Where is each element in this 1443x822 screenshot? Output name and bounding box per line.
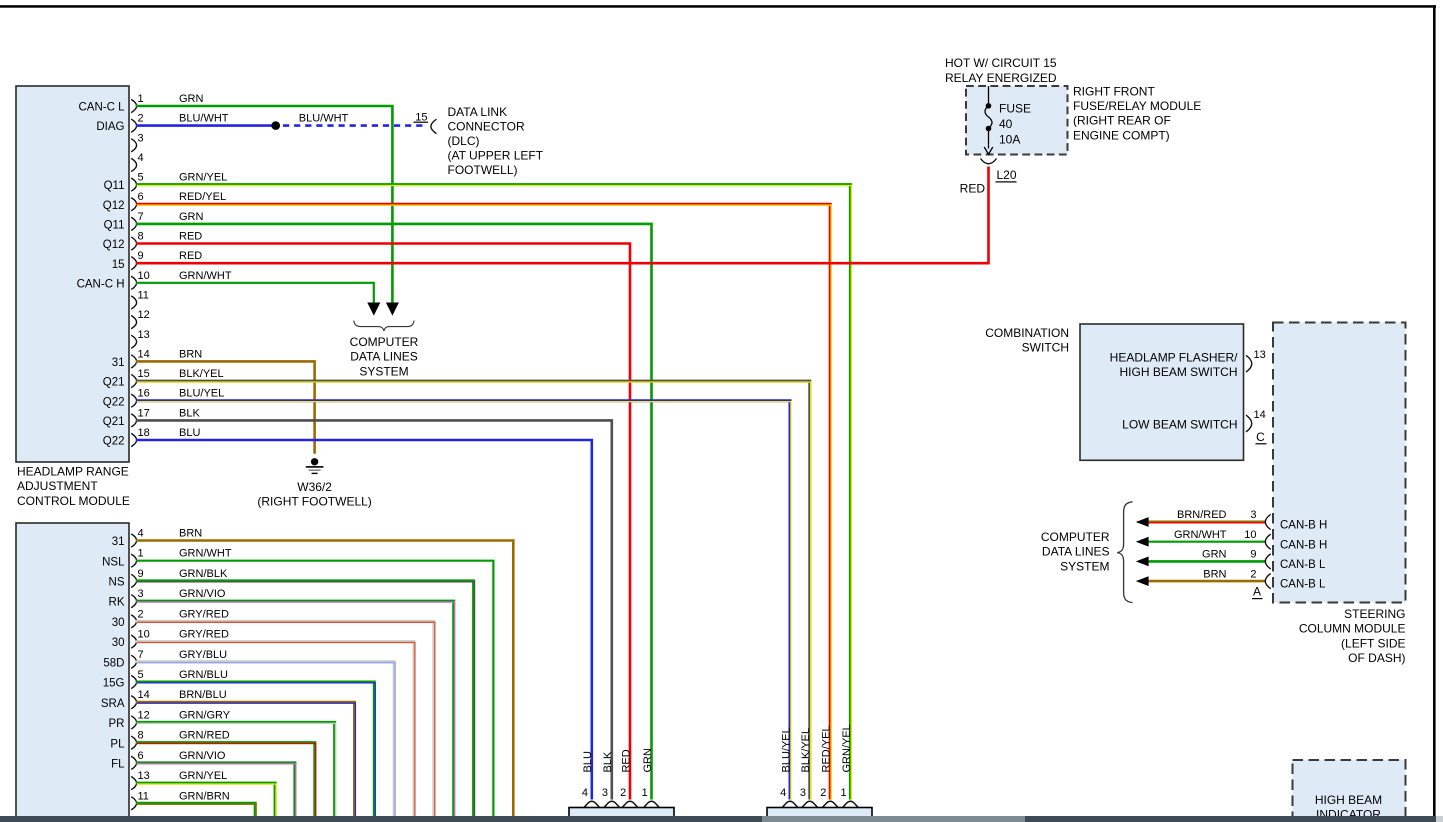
- svg-text:(RIGHT REAR OF: (RIGHT REAR OF: [1073, 114, 1171, 128]
- svg-text:13: 13: [1254, 349, 1266, 361]
- arrow into computer data lines (from U1 pin1): [386, 303, 399, 316]
- svg-text:PR: PR: [109, 718, 125, 730]
- svg-text:GRN/YEL: GRN/YEL: [841, 724, 853, 772]
- wire U2 pin6 GRN/VIO: [136, 763, 296, 817]
- svg-text:A: A: [1253, 585, 1261, 599]
- svg-text:BLK: BLK: [179, 407, 200, 419]
- svg-text:17: 17: [138, 407, 150, 419]
- scrollbar thumb: [762, 816, 1025, 822]
- svg-text:SWITCH: SWITCH: [1022, 341, 1069, 355]
- svg-text:BLU: BLU: [179, 427, 200, 439]
- svg-text:BRN: BRN: [1203, 568, 1226, 580]
- svg-text:15: 15: [138, 368, 150, 380]
- U3 internal CAN-B names: [1280, 520, 1327, 591]
- svg-text:HEADLAMP FLASHER/: HEADLAMP FLASHER/: [1110, 351, 1238, 365]
- svg-text:DIAG: DIAG: [96, 121, 124, 133]
- svg-text:OF DASH): OF DASH): [1348, 651, 1405, 665]
- wire U1 pin8 RED: [136, 244, 630, 800]
- wire U2 pin10 GRY/RED: [136, 642, 415, 817]
- svg-text:3: 3: [800, 787, 806, 799]
- svg-text:10: 10: [138, 629, 150, 641]
- svg-text:GRN/WHT: GRN/WHT: [179, 270, 232, 282]
- wire U2 pin2 GRY/RED: [136, 621, 435, 817]
- svg-text:40: 40: [999, 117, 1013, 131]
- svg-text:NS: NS: [109, 577, 125, 589]
- svg-text:RK: RK: [109, 597, 125, 609]
- svg-text:30: 30: [112, 617, 125, 629]
- module U1 internal pin names: [77, 102, 126, 448]
- wire U1 pin17 BLK: [136, 420, 612, 799]
- connector X1 (left lamp) pin cups: [584, 801, 659, 807]
- svg-text:BRN/RED: BRN/RED: [1177, 509, 1227, 521]
- svg-text:31: 31: [112, 536, 125, 548]
- wire U3 pin9 GRN: [1149, 560, 1266, 563]
- svg-text:GRN/BLK: GRN/BLK: [179, 568, 228, 580]
- svg-text:FUSE: FUSE: [999, 102, 1031, 116]
- svg-text:Q11: Q11: [104, 180, 125, 192]
- svg-text:10A: 10A: [999, 133, 1020, 147]
- module U1 pin numbers 1-18: [138, 93, 150, 439]
- svg-text:2: 2: [138, 608, 144, 620]
- svg-text:1: 1: [642, 787, 648, 799]
- svg-text:RED/YEL: RED/YEL: [179, 191, 226, 203]
- svg-text:COMPUTER: COMPUTER: [350, 335, 419, 349]
- svg-text:3: 3: [1250, 509, 1256, 521]
- svg-text:HOT W/ CIRCUIT 15: HOT W/ CIRCUIT 15: [945, 56, 1057, 70]
- svg-text:1: 1: [840, 787, 846, 799]
- svg-text:Q12: Q12: [103, 200, 125, 212]
- svg-text:GRN/WHT: GRN/WHT: [179, 548, 232, 560]
- arrow to computer data lines row 4: [1136, 576, 1149, 586]
- arrow to computer data lines row 1: [1136, 517, 1149, 527]
- svg-text:BRN: BRN: [179, 348, 202, 360]
- svg-text:GRN/BRN: GRN/BRN: [179, 790, 230, 802]
- U4 caption HIGH BEAM INDICATOR: [1315, 793, 1382, 822]
- svg-text:7: 7: [138, 649, 144, 661]
- connector X2 (right lamp) box: [767, 808, 872, 818]
- svg-text:14: 14: [138, 348, 150, 360]
- svg-text:CONNECTOR: CONNECTOR: [448, 120, 525, 134]
- ground W36/2 caption: [257, 480, 371, 509]
- svg-text:12: 12: [138, 709, 150, 721]
- svg-text:LOW BEAM SWITCH: LOW BEAM SWITCH: [1122, 418, 1237, 432]
- svg-text:BLU/YEL: BLU/YEL: [780, 727, 792, 772]
- connector X2 (right lamp) rotated wire labels: [780, 724, 852, 772]
- svg-text:RED: RED: [960, 182, 986, 196]
- svg-text:GRN/VIO: GRN/VIO: [179, 750, 226, 762]
- module U2 pin numbers: [138, 528, 150, 803]
- wire U3 pin3 BRN/RED: [1149, 521, 1266, 525]
- svg-text:W36/2: W36/2: [297, 480, 332, 494]
- svg-text:BLK/YEL: BLK/YEL: [800, 728, 812, 773]
- svg-text:4: 4: [582, 787, 588, 799]
- module U3 pin arcs: [1265, 514, 1270, 588]
- DATA LINK CONNECTOR (DLC) caption: [448, 105, 544, 177]
- U3 wire color labels: [1174, 509, 1227, 580]
- svg-text:C: C: [1256, 430, 1265, 444]
- wire U3 pin10 GRN/WHT: [1149, 541, 1266, 543]
- svg-text:GRN: GRN: [179, 211, 204, 223]
- wire U2 pin3 GRN/VIO: [136, 601, 455, 817]
- svg-text:CAN-C H: CAN-C H: [77, 278, 125, 290]
- svg-text:HIGH BEAM SWITCH: HIGH BEAM SWITCH: [1119, 365, 1237, 379]
- svg-text:Q12: Q12: [103, 239, 125, 251]
- node L20 label (underlined): [996, 168, 1017, 183]
- svg-text:14: 14: [1254, 409, 1266, 421]
- caption HOT W/ CIRCUIT 15 RELAY ENERGIZED: [945, 56, 1057, 85]
- svg-text:7: 7: [138, 211, 144, 223]
- connector X1 (left lamp) rotated wire labels: [582, 748, 654, 773]
- svg-text:4: 4: [138, 528, 144, 540]
- svg-text:Q11: Q11: [104, 219, 125, 231]
- svg-text:L20: L20: [997, 168, 1017, 182]
- svg-text:HEADLAMP RANGE: HEADLAMP RANGE: [17, 465, 129, 479]
- svg-text:2: 2: [138, 113, 144, 125]
- svg-text:GRY/RED: GRY/RED: [179, 629, 229, 641]
- wire U1 pin6 RED/YEL: [136, 204, 831, 800]
- svg-text:15: 15: [112, 259, 125, 271]
- splice node on BLU/WHT wire: [271, 121, 280, 130]
- svg-text:6: 6: [138, 750, 144, 762]
- svg-text:1: 1: [138, 93, 144, 105]
- svg-text:(AT UPPER LEFT: (AT UPPER LEFT: [448, 149, 544, 163]
- svg-text:8: 8: [138, 231, 144, 243]
- caption COMPUTER DATA LINES SYSTEM (center): [350, 335, 419, 378]
- wire U2 pin8 GRN/RED: [136, 743, 316, 817]
- svg-text:Q21: Q21: [103, 377, 125, 389]
- svg-text:GRN: GRN: [642, 748, 654, 773]
- svg-text:COLUMN MODULE: COLUMN MODULE: [1299, 622, 1406, 636]
- svg-text:RED: RED: [620, 749, 632, 772]
- fuse F40 10A element: [984, 86, 993, 154]
- svg-text:CAN-B H: CAN-B H: [1280, 539, 1327, 551]
- connector X2 (right lamp) pin cups: [782, 801, 858, 807]
- svg-text:GRY/BLU: GRY/BLU: [179, 649, 227, 661]
- svg-text:GRN/VIO: GRN/VIO: [179, 588, 226, 600]
- svg-text:16: 16: [138, 388, 150, 400]
- svg-text:2: 2: [1250, 568, 1256, 580]
- svg-text:NSL: NSL: [102, 556, 125, 568]
- svg-text:GRN/YEL: GRN/YEL: [179, 172, 227, 184]
- scrollbar corner: [1436, 816, 1443, 822]
- svg-text:RED: RED: [179, 231, 202, 243]
- svg-text:30: 30: [112, 637, 125, 649]
- caption RIGHT FRONT FUSE/RELAY MODULE: [1073, 84, 1201, 142]
- connector X1 (left lamp) pin numbers 4 3 2 1: [582, 787, 648, 799]
- svg-text:BLU: BLU: [582, 751, 594, 772]
- wire U1 pin2 BLU/WHT solid segment: [136, 124, 272, 127]
- svg-text:58D: 58D: [103, 657, 124, 669]
- svg-text:13: 13: [138, 770, 150, 782]
- svg-text:COMPUTER: COMPUTER: [1041, 530, 1110, 544]
- wire U1 pin14 BRN: [136, 361, 315, 453]
- svg-text:GRN/BLU: GRN/BLU: [179, 669, 228, 681]
- svg-text:(RIGHT FOOTWELL): (RIGHT FOOTWELL): [257, 495, 371, 509]
- wire U2 pin12 GRN/GRY: [136, 722, 336, 817]
- arrow to computer data lines row 2: [1136, 537, 1149, 547]
- wire U1 pin9 RED: [136, 167, 989, 264]
- module U3 caption STEERING COLUMN MODULE: [1299, 607, 1406, 665]
- page top border: [0, 5, 1436, 8]
- svg-text:RED/YEL: RED/YEL: [821, 725, 833, 772]
- svg-text:ENGINE COMPT): ENGINE COMPT): [1073, 128, 1170, 142]
- fuse value labels FUSE 40 10A: [999, 102, 1031, 147]
- connector X2 (right lamp) pin numbers 4 3 2 1: [780, 787, 847, 799]
- combination switch box: [1080, 324, 1244, 460]
- svg-text:4: 4: [780, 787, 786, 799]
- svg-text:11: 11: [138, 289, 149, 301]
- svg-text:FOOTWELL): FOOTWELL): [448, 163, 518, 177]
- svg-text:HIGH BEAM: HIGH BEAM: [1315, 793, 1382, 807]
- svg-text:Q21: Q21: [103, 416, 125, 428]
- svg-text:DATA LINES: DATA LINES: [1042, 545, 1110, 559]
- node C label (underlined): [1256, 430, 1267, 445]
- svg-text:4: 4: [138, 152, 144, 164]
- svg-text:BRN/BLU: BRN/BLU: [179, 689, 227, 701]
- svg-text:3: 3: [138, 588, 144, 600]
- caption COMPUTER DATA LINES SYSTEM (right): [1041, 530, 1110, 574]
- svg-text:10: 10: [1244, 529, 1256, 541]
- svg-text:SYSTEM: SYSTEM: [359, 364, 408, 378]
- svg-text:SRA: SRA: [101, 698, 125, 710]
- wire U2 pin11 GRN/BRN: [136, 803, 256, 817]
- wire U1 pin7 GRN: [136, 224, 652, 800]
- svg-text:5: 5: [138, 669, 144, 681]
- svg-text:6: 6: [138, 191, 144, 203]
- module U2: lower headlamp module connector: [16, 523, 129, 818]
- svg-text:BLU/YEL: BLU/YEL: [179, 388, 224, 400]
- switch S1: HEADLAMP FLASHER/HIGH BEAM SWITCH: [1110, 351, 1238, 380]
- svg-text:10: 10: [138, 270, 150, 282]
- wire U1 pin18 BLU: [136, 440, 592, 800]
- svg-text:1: 1: [138, 548, 144, 560]
- combination switch pin 13 arc: [1246, 355, 1252, 372]
- svg-text:CAN-B L: CAN-B L: [1280, 579, 1326, 591]
- svg-text:COMBINATION: COMBINATION: [985, 326, 1069, 340]
- svg-text:9: 9: [138, 250, 144, 262]
- svg-text:BLK/YEL: BLK/YEL: [179, 368, 224, 380]
- svg-text:RED: RED: [179, 250, 202, 262]
- node A label (underlined): [1252, 585, 1263, 600]
- module U4: HIGH BEAM INDICATOR (dashed, cut off): [1293, 760, 1406, 822]
- wire U2 pin1 GRN/WHT: [136, 561, 493, 816]
- svg-text:GRN/WHT: GRN/WHT: [1174, 529, 1227, 541]
- svg-text:FUSE/RELAY MODULE: FUSE/RELAY MODULE: [1073, 99, 1201, 113]
- connector cup below fuse box: [981, 159, 997, 164]
- caption COMBINATION SWITCH: [985, 326, 1069, 355]
- svg-text:GRN/RED: GRN/RED: [179, 730, 230, 742]
- svg-text:DATA LINES: DATA LINES: [350, 350, 418, 364]
- module U2 wire color labels: [179, 528, 232, 803]
- wire U3 pin2 BRN: [1149, 580, 1266, 583]
- wire U1 pin1 GRN: [136, 106, 392, 303]
- svg-text:31: 31: [112, 357, 125, 369]
- underbrace computer data lines: [354, 321, 414, 331]
- svg-text:GRN/YEL: GRN/YEL: [179, 770, 227, 782]
- wire U1 pin15 BLK/YEL: [136, 381, 811, 800]
- svg-text:15: 15: [415, 111, 427, 123]
- svg-text:(DLC): (DLC): [448, 134, 480, 148]
- module U1 pin arcs 1-18: [131, 99, 136, 446]
- wire U2 pin13 GRN/YEL: [136, 783, 276, 817]
- svg-text:DATA LINK: DATA LINK: [448, 105, 508, 119]
- svg-text:(LEFT SIDE: (LEFT SIDE: [1341, 636, 1405, 650]
- svg-text:2: 2: [820, 787, 826, 799]
- arrow to computer data lines row 3: [1136, 557, 1149, 567]
- left curly brace computer data lines: [1117, 502, 1132, 603]
- wire U2 pin5 GRN/BLU: [136, 682, 375, 817]
- svg-text:BLK: BLK: [602, 751, 614, 772]
- DLC connector arc: [431, 119, 437, 133]
- svg-text:GRN/GRY: GRN/GRY: [179, 709, 231, 721]
- module U2 pin arcs: [131, 534, 136, 810]
- svg-text:GRN: GRN: [179, 93, 204, 105]
- node 15 label (DLC pin, underlined): [414, 111, 429, 123]
- svg-text:GRY/RED: GRY/RED: [179, 608, 229, 620]
- svg-text:2: 2: [620, 787, 626, 799]
- combination switch pin 14 arc: [1246, 415, 1252, 432]
- wire U2 pin9 GRN/BLK: [136, 581, 475, 817]
- wire U2 pin14 BRN/BLU: [136, 702, 355, 817]
- svg-text:RIGHT FRONT: RIGHT FRONT: [1073, 84, 1155, 98]
- module U1 caption: [17, 465, 130, 508]
- svg-text:15G: 15G: [103, 678, 125, 690]
- svg-text:13: 13: [138, 329, 150, 341]
- svg-text:CAN-C L: CAN-C L: [78, 102, 125, 114]
- wire BLU/WHT dashed segment to DLC: [283, 124, 424, 127]
- svg-text:SYSTEM: SYSTEM: [1060, 559, 1109, 573]
- svg-text:3: 3: [138, 132, 144, 144]
- svg-text:CAN-B L: CAN-B L: [1280, 559, 1326, 571]
- wire U2 pin7 GRY/BLU: [136, 662, 395, 817]
- horizontal scrollbar track: [0, 816, 1443, 822]
- svg-text:PL: PL: [110, 738, 125, 750]
- module U1: HEADLAMP RANGE ADJUSTMENT CONTROL MODULE: [16, 86, 129, 462]
- svg-text:ADJUSTMENT: ADJUSTMENT: [17, 479, 98, 493]
- svg-text:5: 5: [138, 172, 144, 184]
- ground W36/2 symbol: [306, 458, 324, 474]
- svg-text:CONTROL MODULE: CONTROL MODULE: [17, 494, 130, 508]
- svg-text:BLU/WHT: BLU/WHT: [299, 113, 349, 125]
- wire U1 pin5 GRN/YEL: [136, 185, 851, 801]
- svg-text:3: 3: [602, 787, 608, 799]
- svg-text:18: 18: [138, 427, 150, 439]
- wire U1 pin10 GRN/WHT: [136, 283, 374, 303]
- svg-text:Q22: Q22: [103, 396, 125, 408]
- module U2 internal pin names: [101, 536, 125, 770]
- fuse box (RIGHT FRONT FUSE/RELAY MODULE): [966, 86, 1068, 155]
- svg-text:GRN: GRN: [1202, 549, 1227, 561]
- wire U1 pin16 BLU/YEL: [136, 401, 791, 801]
- arrow into computer data lines (from U1 pin10): [367, 303, 380, 316]
- module U3: STEERING COLUMN MODULE (dashed): [1273, 323, 1406, 603]
- svg-text:BLU/WHT: BLU/WHT: [179, 113, 229, 125]
- connector X1 (left lamp) box: [569, 808, 674, 818]
- svg-text:FL: FL: [111, 758, 125, 770]
- wire U2 pin4 BRN: [136, 541, 513, 817]
- U3 pin numbers: [1244, 509, 1256, 580]
- module U1 wire color labels: [179, 93, 232, 439]
- svg-text:STEERING: STEERING: [1344, 607, 1405, 621]
- svg-text:BRN: BRN: [179, 528, 202, 540]
- svg-text:9: 9: [138, 568, 144, 580]
- svg-text:12: 12: [138, 309, 150, 321]
- svg-text:9: 9: [1250, 549, 1256, 561]
- svg-text:Q22: Q22: [103, 436, 125, 448]
- svg-text:CAN-B H: CAN-B H: [1280, 520, 1327, 532]
- svg-text:RELAY ENERGIZED: RELAY ENERGIZED: [945, 71, 1057, 85]
- svg-text:11: 11: [138, 790, 149, 802]
- svg-text:14: 14: [138, 689, 150, 701]
- page right border: [1433, 5, 1436, 816]
- svg-text:8: 8: [138, 730, 144, 742]
